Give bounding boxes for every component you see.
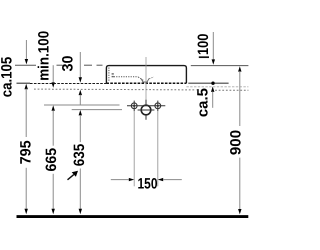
rim reference line right	[191, 65, 249, 67]
dimension 665 stem lower	[52, 174, 54, 210]
dimension 900 stem lower	[239, 158, 241, 210]
mid reference line 1	[44, 104, 120, 106]
mid reference line 2	[72, 109, 122, 111]
dimension min.100 stem	[52, 65, 54, 83]
counter dotted line right	[212, 89, 249, 91]
dimension 900 stem upper	[239, 71, 241, 126]
basin underside tick right	[188, 82, 228, 84]
dimension ca.5 up arrowhead	[211, 87, 214, 92]
dimension 30 stem	[79, 52, 81, 78]
fixing hole right center dot	[157, 105, 159, 107]
dimension 100 serif bar	[199, 56, 209, 58]
fixing hole right circle	[155, 103, 161, 109]
fixing hole left vertical tick	[133, 101, 135, 112]
svg-text:30: 30	[60, 56, 77, 72]
extension line right fixing hole	[157, 111, 159, 186]
dimension ca.105 upper stem	[25, 40, 27, 60]
basin inner dotted slope right	[149, 77, 154, 79]
dimension 150 right-pointing arrowhead	[129, 178, 134, 181]
basin inner dotted floor	[114, 76, 138, 78]
svg-text:665: 665	[43, 148, 60, 172]
rim-level dashes right of 30 label	[84, 64, 92, 66]
dimension ca.105 down arrowhead	[25, 59, 28, 64]
svg-text:100: 100	[195, 34, 212, 56]
counter dotted line left	[34, 88, 197, 91]
fixing hole left center dot	[133, 105, 135, 107]
basin underside tick left	[17, 82, 31, 84]
fixing hole left circle	[131, 103, 137, 109]
svg-text:ca.105: ca.105	[0, 57, 15, 98]
dimension 100 down arrowhead	[212, 59, 215, 64]
dimension 665 up arrowhead	[52, 105, 55, 110]
dimension 150 left stem	[111, 179, 129, 181]
basin centerline	[145, 57, 147, 100]
floor line	[17, 215, 249, 218]
basin inner dotted left wall	[108, 68, 110, 82]
dimension 635 upper up arrowhead at dotted line	[79, 90, 82, 95]
basin drain outline	[141, 78, 149, 82]
dimension ca.5 stem	[212, 92, 214, 108]
svg-text:900: 900	[228, 130, 245, 155]
rim-level dash left of 30 label	[57, 64, 63, 66]
fixing hole right vertical tick	[157, 101, 159, 112]
basin inner dotted slope	[138, 77, 144, 81]
ca.5 reference dot	[211, 82, 214, 85]
svg-text:ca.5: ca.5	[195, 88, 212, 117]
dimension 635 stem lower	[79, 169, 81, 210]
dimension 635 connector stem	[79, 95, 81, 105]
dimension 795 down arrowhead	[25, 209, 28, 214]
dimension 150 right stem	[163, 179, 182, 181]
svg-text:635: 635	[71, 144, 88, 167]
dimension 900 down arrowhead	[238, 209, 241, 214]
dimension 100 stem	[212, 32, 214, 60]
svg-text:795: 795	[17, 140, 34, 164]
fixing holes horizontal line	[127, 105, 165, 107]
counter dashed line right	[186, 86, 248, 88]
svg-text:min.100: min.100	[36, 31, 53, 81]
dimension 635 up arrowhead at line 2	[79, 110, 82, 115]
tap hole large circle	[141, 105, 151, 115]
recommended height arrow at 635	[68, 175, 74, 180]
dimension min.100 down arrowhead	[52, 82, 55, 87]
dimension 635 stem upper	[79, 115, 81, 142]
basin overflow marks	[112, 73, 114, 74]
dimension 665 down arrowhead	[52, 209, 55, 214]
dimension 665 stem upper	[52, 110, 54, 145]
dimension 795 stem lower	[25, 168, 27, 210]
extension line left fixing hole	[133, 111, 135, 186]
left reference tick at rim level	[15, 64, 36, 66]
dimension 635 down arrowhead	[79, 209, 82, 214]
tap hole large circle horizontal tick	[138, 109, 155, 111]
counter dashed line	[30, 83, 106, 85]
tap centerline dark segment	[145, 100, 147, 120]
svg-text:150: 150	[138, 176, 158, 193]
dimension 795 up arrowhead	[25, 84, 28, 89]
dimension 795 stem upper	[25, 89, 27, 137]
dimension 30 down arrowhead	[79, 77, 82, 82]
washbasin bottom dashed edge	[106, 82, 186, 84]
dimension 900 up arrowhead	[238, 66, 241, 71]
washbasin body outline	[106, 66, 186, 84]
dimension 150 left-pointing arrowhead	[158, 178, 163, 181]
